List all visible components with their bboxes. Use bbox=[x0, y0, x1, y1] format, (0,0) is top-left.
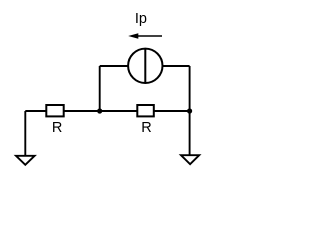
wire: main horizontal node line bbox=[25, 110, 189, 112]
wire: top-right segment from current source bbox=[162, 65, 190, 67]
wire: right vertical down to ground bbox=[189, 66, 191, 156]
arrow for Ip current direction (pointing left) bbox=[128, 33, 162, 38]
current source Ip (circle with vertical bar) bbox=[128, 49, 162, 83]
ground (right) bbox=[181, 155, 199, 164]
ground (left) bbox=[16, 156, 35, 165]
wire: left ground riser bbox=[24, 111, 26, 156]
resistor R1 (left) bbox=[46, 105, 63, 116]
junction dot (left node) bbox=[97, 108, 102, 113]
svg-text:R: R bbox=[141, 120, 151, 136]
wire: left branch of current source loop bbox=[99, 66, 101, 111]
svg-text:Ip: Ip bbox=[135, 11, 147, 27]
svg-text:R: R bbox=[52, 120, 62, 136]
wire: top-left segment to current source bbox=[100, 65, 129, 67]
resistor R2 (right) bbox=[137, 105, 154, 116]
junction dot (right node) bbox=[187, 108, 192, 113]
